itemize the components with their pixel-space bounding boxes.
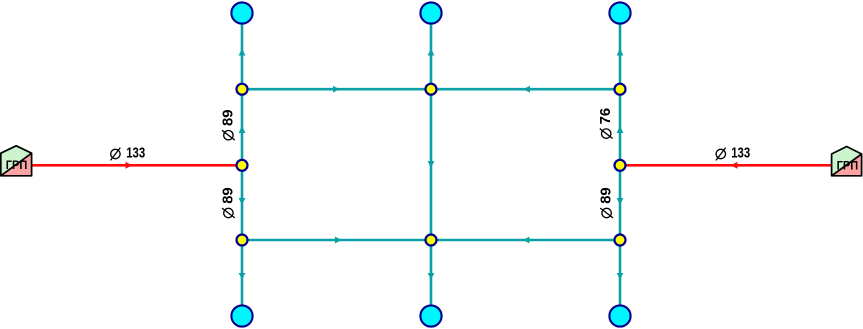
label ø 133 left [111, 145, 146, 162]
svg-text:76: 76 [597, 108, 614, 125]
flow arrow down col2 bottom [428, 273, 435, 280]
source ГРП left [1, 146, 32, 176]
svg-text:ГРП: ГРП [837, 158, 859, 172]
node junction A3 [615, 84, 626, 95]
wire: pipe column 2 vertical [430, 13, 433, 316]
label ø 76 col3 upper (rotated) [597, 108, 614, 139]
flow arrow down col2 mid [428, 161, 435, 168]
consumer circle bottom 1 [231, 305, 252, 326]
flow arrow right bottom line seg1 [335, 237, 342, 244]
consumer circle top 1 [231, 2, 252, 23]
flow arrow down col3 low (ø89) [617, 198, 624, 205]
svg-text:89: 89 [598, 187, 615, 204]
flow arrow up col1 mid (ø89) [239, 126, 246, 133]
label ø 89 col3 lower (rotated) [598, 187, 615, 218]
node junction B3 [615, 160, 626, 171]
wire: supply line right (red) [620, 164, 832, 167]
node junction C1 [237, 235, 248, 246]
source ГРП right [832, 147, 862, 176]
node junction C3 [615, 235, 626, 246]
consumer circle top 3 [609, 2, 630, 23]
svg-text:133: 133 [731, 145, 750, 162]
flow arrow down col1 bottom [239, 273, 246, 280]
svg-text:89: 89 [219, 110, 236, 127]
flow arrow left on right supply line [731, 162, 738, 169]
flow arrow down col3 bottom [617, 273, 624, 280]
label ø 89 col1 upper (rotated) [219, 110, 236, 141]
node junction A2 [426, 84, 437, 95]
consumer circle bottom 3 [609, 305, 630, 326]
flow arrow up col3 mid (ø76) [617, 126, 624, 133]
node junction A1 [237, 84, 248, 95]
flow arrow down col1 low (ø89) [239, 198, 246, 205]
flow arrow up col1 top [239, 49, 246, 56]
flow arrow up col3 top [617, 49, 624, 56]
wire: pipe column 1 vertical [241, 13, 244, 316]
svg-text:89: 89 [219, 187, 236, 204]
consumer circle bottom 2 [420, 305, 441, 326]
flow arrow left bottom line seg2 [523, 237, 530, 244]
wire: supply line left (red) [31, 164, 242, 167]
flow arrow left top line seg2 [523, 86, 530, 93]
flow arrow right on left supply line [126, 162, 133, 169]
wire: pipe bottom horizontal [242, 239, 620, 242]
wire: pipe column 3 vertical [619, 13, 622, 316]
flow arrow up col2 top [428, 49, 435, 56]
label ø 133 right [716, 145, 750, 162]
label ø 89 col1 lower (rotated) [219, 187, 236, 218]
node junction C2 [426, 235, 437, 246]
consumer circle top 2 [420, 2, 441, 23]
svg-text:ГРП: ГРП [6, 158, 28, 172]
svg-text:133: 133 [126, 145, 145, 162]
node junction B1 [237, 160, 248, 171]
flow arrow right top line seg1 [333, 86, 340, 93]
wire: pipe top horizontal [242, 88, 620, 91]
